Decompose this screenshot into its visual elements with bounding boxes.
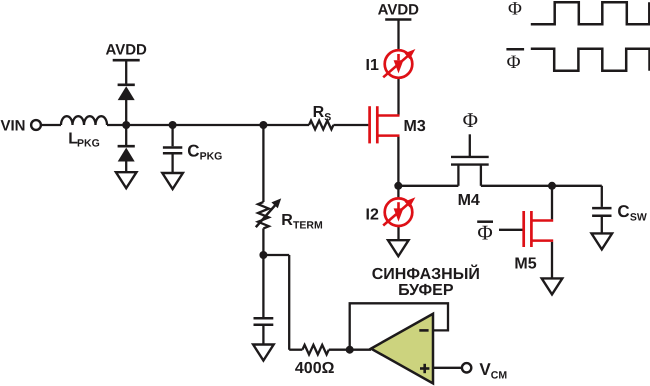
svg-text:S: S: [324, 111, 331, 123]
svg-text:БУФЕР: БУФЕР: [398, 282, 454, 299]
svg-text:M5: M5: [514, 256, 536, 273]
svg-text:V: V: [479, 360, 491, 379]
svg-text:400Ω: 400Ω: [295, 360, 335, 377]
svg-text:Φ: Φ: [507, 52, 521, 73]
svg-text:I2: I2: [366, 207, 379, 224]
svg-text:CM: CM: [491, 370, 508, 382]
svg-text:SW: SW: [630, 212, 647, 224]
svg-text:PKG: PKG: [77, 137, 100, 149]
svg-text:Φ: Φ: [463, 108, 478, 132]
svg-text:AVDD: AVDD: [106, 42, 148, 59]
svg-text:PKG: PKG: [200, 151, 223, 163]
svg-text:AVDD: AVDD: [378, 1, 420, 18]
svg-text:Φ: Φ: [508, 0, 522, 20]
svg-text:R: R: [313, 104, 325, 121]
svg-text:СИНФАЗНЫЙ: СИНФАЗНЫЙ: [372, 264, 480, 283]
svg-text:I1: I1: [366, 57, 379, 74]
svg-text:C: C: [617, 202, 629, 221]
svg-text:C: C: [187, 141, 199, 160]
svg-text:R: R: [281, 212, 293, 229]
svg-text:M4: M4: [458, 192, 480, 209]
svg-text:M3: M3: [404, 118, 426, 135]
svg-text:TERM: TERM: [293, 219, 323, 231]
svg-text:Φ: Φ: [477, 221, 492, 245]
svg-text:VIN: VIN: [1, 118, 26, 135]
